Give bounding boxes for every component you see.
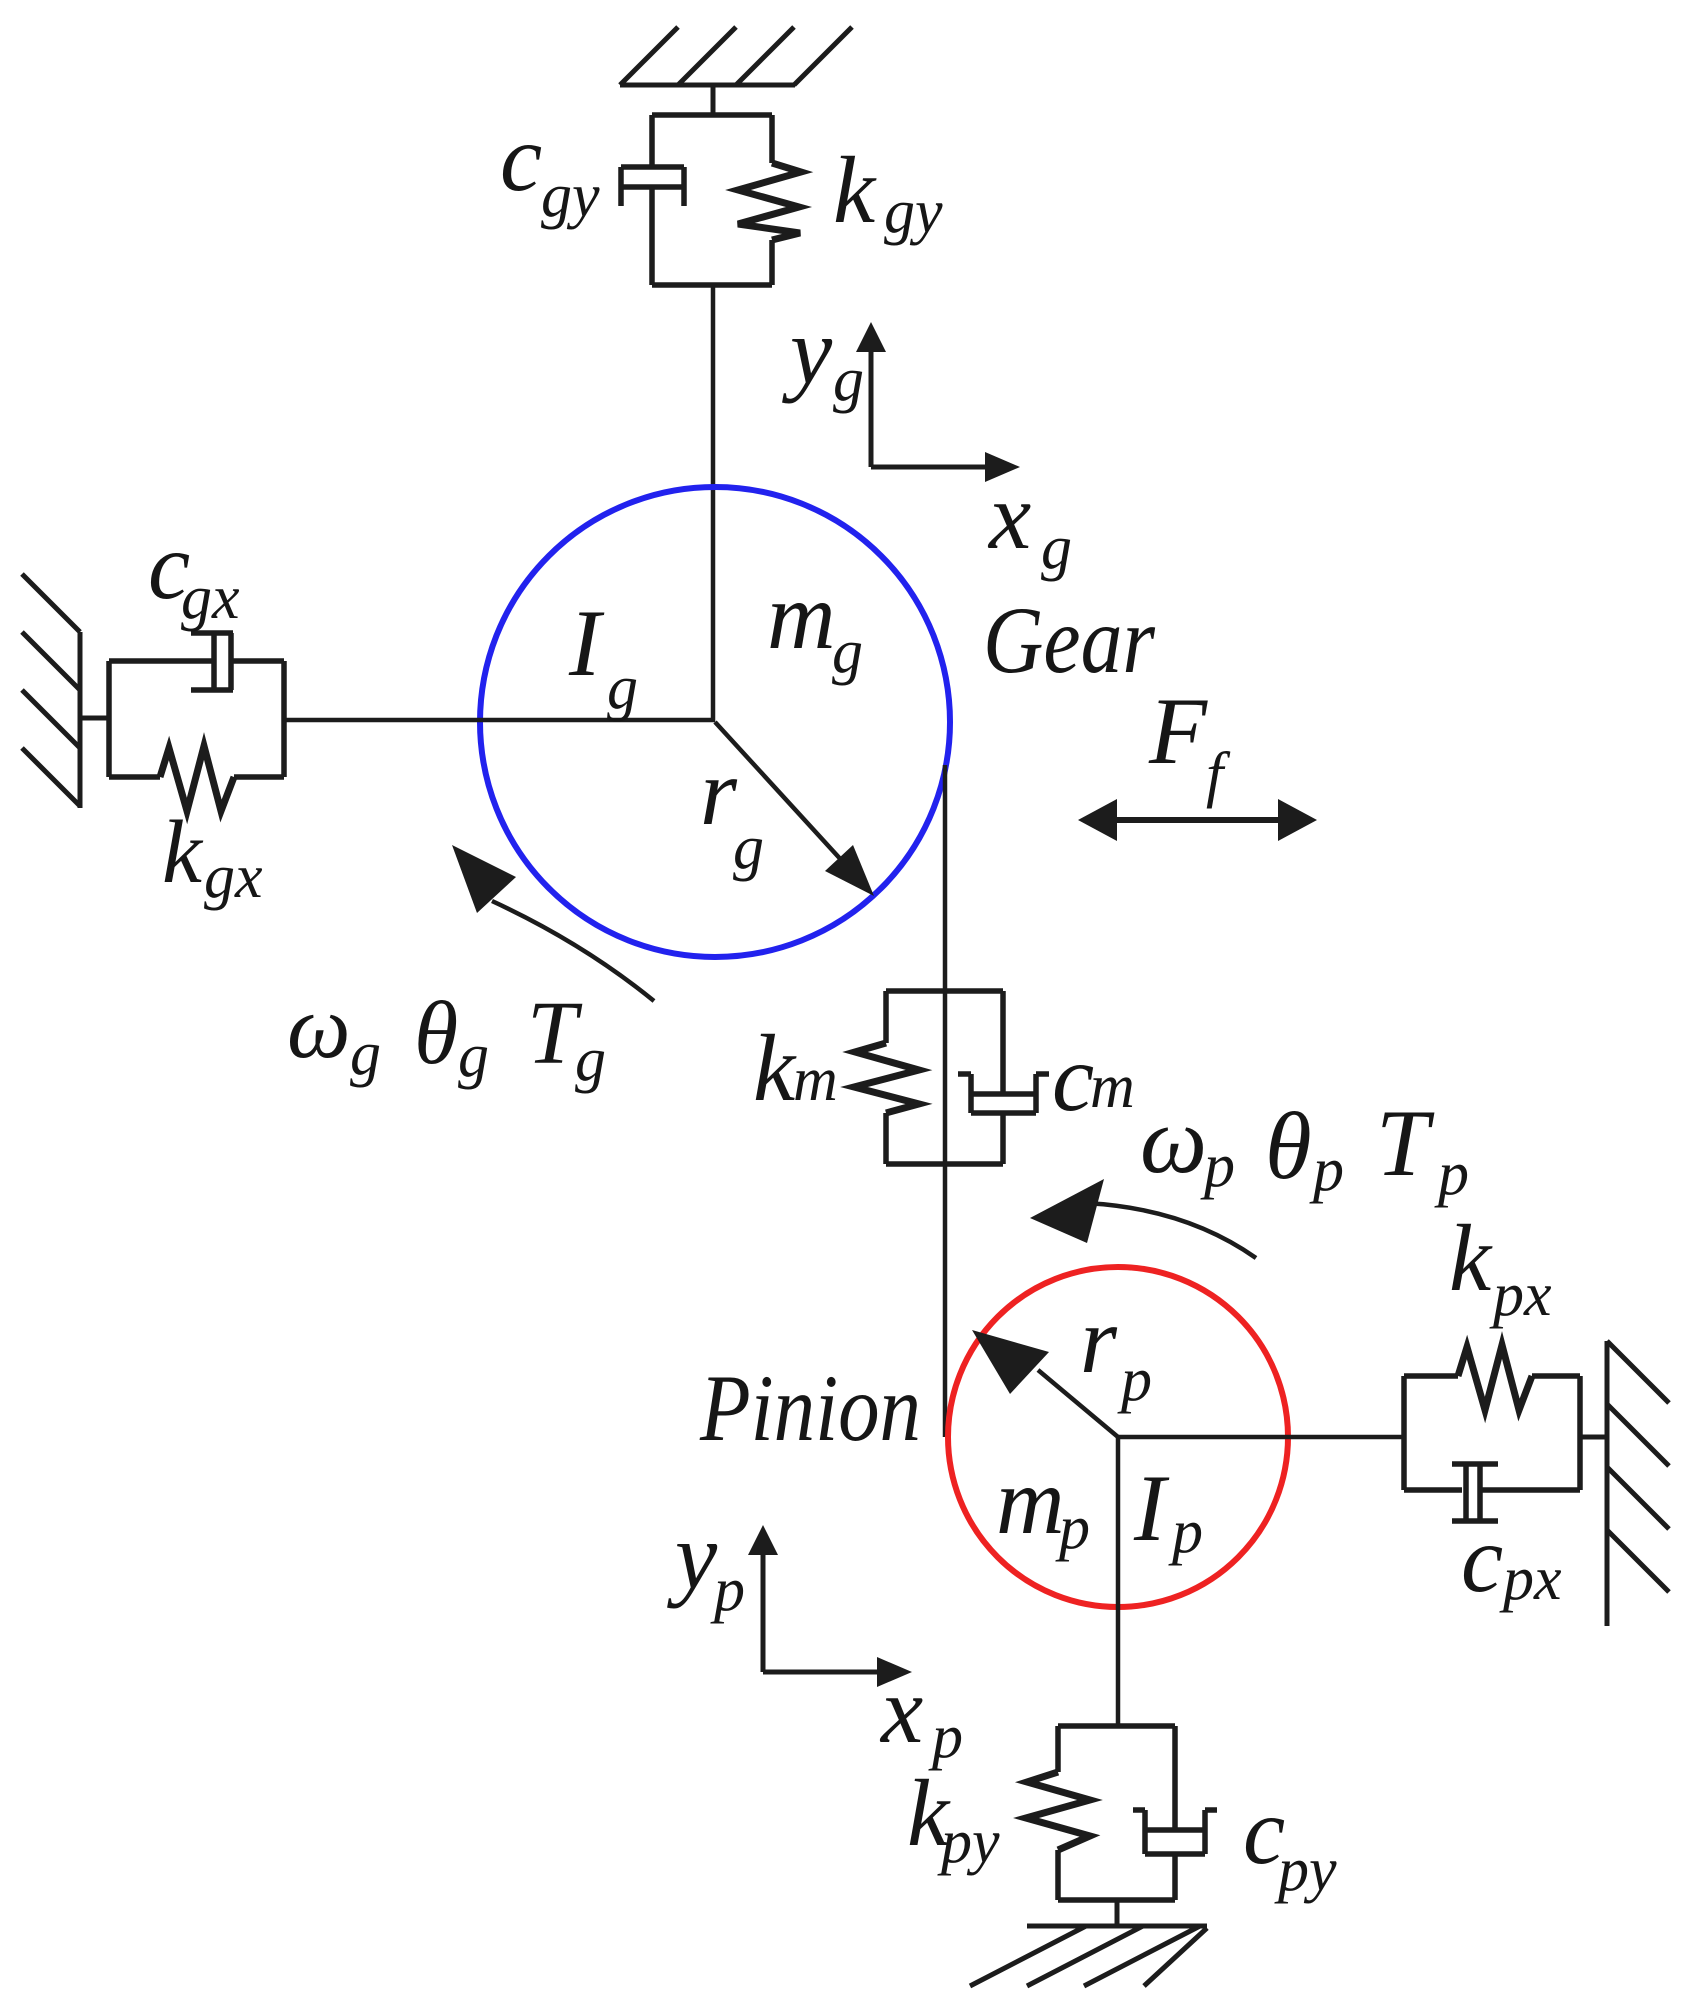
svg-text:p: p xyxy=(1434,1140,1469,1208)
svg-text:I: I xyxy=(568,590,605,696)
svg-text:Gear: Gear xyxy=(983,587,1156,693)
svg-text:T: T xyxy=(1376,1090,1435,1196)
svg-text:px: px xyxy=(1489,1261,1552,1329)
svg-text:k: k xyxy=(753,1015,797,1121)
svg-text:m: m xyxy=(1090,1053,1135,1121)
svg-text:θ: θ xyxy=(414,984,458,1083)
svg-text:p: p xyxy=(1168,1498,1203,1566)
svg-text:py: py xyxy=(1274,1836,1337,1904)
svg-text:k: k xyxy=(833,137,877,243)
svg-text:p: p xyxy=(710,1556,745,1624)
svg-text:gy: gy xyxy=(541,162,600,230)
svg-text:y: y xyxy=(782,298,833,404)
svg-text:g: g xyxy=(733,814,764,882)
svg-text:gy: gy xyxy=(884,178,943,246)
svg-text:θ: θ xyxy=(1265,1093,1312,1199)
svg-text:k: k xyxy=(162,803,204,902)
svg-text:c: c xyxy=(1052,1025,1094,1131)
svg-text:g: g xyxy=(575,1026,606,1094)
svg-text:g: g xyxy=(607,654,638,722)
svg-text:g: g xyxy=(350,1020,381,1088)
svg-text:gx: gx xyxy=(181,564,240,632)
svg-text:c: c xyxy=(1461,1506,1503,1612)
svg-text:p: p xyxy=(928,1703,963,1771)
svg-text:ω: ω xyxy=(287,978,351,1077)
svg-text:p: p xyxy=(1117,1346,1152,1414)
svg-text:gx: gx xyxy=(204,843,263,911)
svg-text:p: p xyxy=(1309,1136,1344,1204)
svg-text:p: p xyxy=(1055,1494,1090,1562)
svg-text:m: m xyxy=(793,1046,838,1114)
svg-text:I: I xyxy=(1133,1455,1170,1561)
svg-text:g: g xyxy=(458,1022,489,1090)
svg-text:px: px xyxy=(1499,1545,1562,1613)
svg-text:x: x xyxy=(879,1657,923,1763)
svg-text:y: y xyxy=(667,1503,718,1609)
svg-text:ω: ω xyxy=(1140,1087,1207,1193)
svg-text:py: py xyxy=(937,1808,1000,1876)
svg-text:k: k xyxy=(1449,1205,1493,1311)
svg-text:p: p xyxy=(1200,1132,1235,1200)
svg-text:r: r xyxy=(1080,1287,1118,1393)
svg-text:m: m xyxy=(767,563,836,669)
svg-text:c: c xyxy=(500,105,542,211)
svg-text:Pinion: Pinion xyxy=(699,1355,921,1461)
svg-text:f: f xyxy=(1206,741,1231,809)
svg-text:g: g xyxy=(832,618,863,686)
svg-text:F: F xyxy=(1148,678,1208,784)
svg-text:g: g xyxy=(1041,514,1072,582)
svg-text:m: m xyxy=(996,1448,1065,1554)
svg-text:x: x xyxy=(987,463,1031,569)
svg-text:g: g xyxy=(833,346,864,414)
